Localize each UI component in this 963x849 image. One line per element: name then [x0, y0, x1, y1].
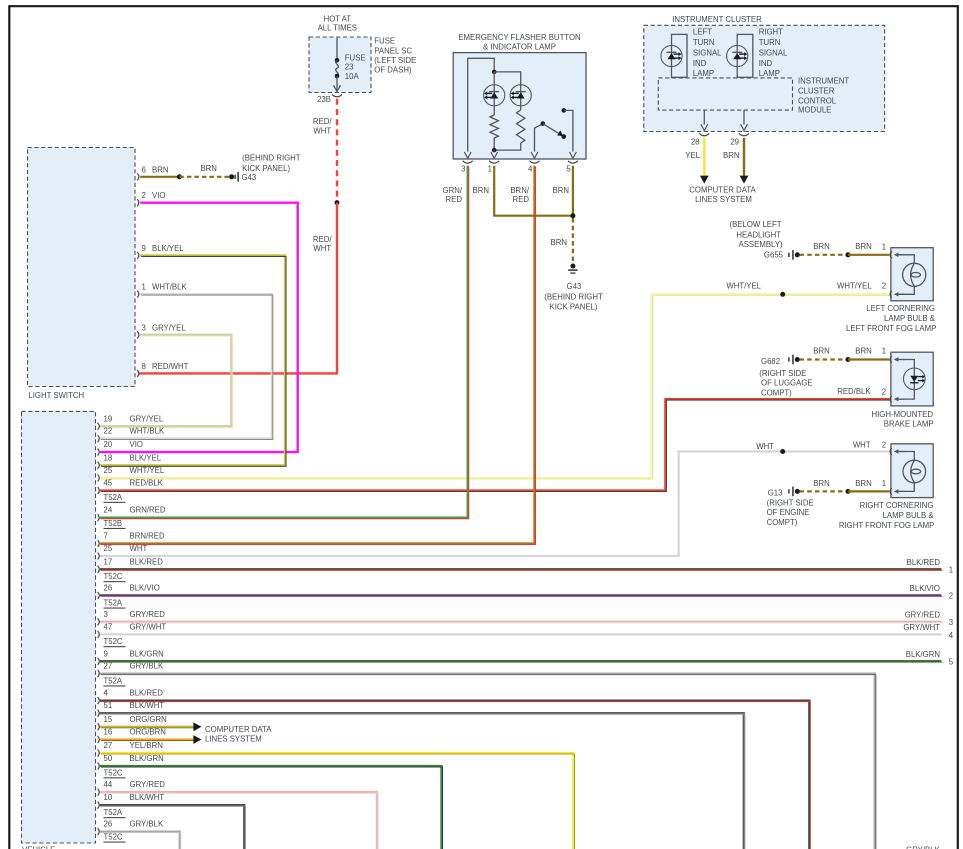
svg-text:LEFT CORNERING: LEFT CORNERING — [866, 304, 935, 313]
svg-text:3: 3 — [142, 323, 146, 332]
T52 pin 17 BLK/RED terminal — [98, 557, 164, 573]
svg-text:G43: G43 — [567, 282, 582, 291]
svg-text:BLK/RED: BLK/RED — [130, 689, 164, 698]
svg-text:23B: 23B — [317, 95, 331, 104]
node T52C — [104, 768, 126, 778]
splice on BRN — [177, 174, 182, 179]
svg-text:7: 7 — [104, 532, 108, 541]
svg-text:BRN: BRN — [813, 347, 829, 356]
light switch pin 2 VIO terminal — [137, 191, 165, 206]
T52 pin 24 GRN/RED terminal — [98, 506, 166, 522]
svg-text:RIGHT FRONT FOG LAMP: RIGHT FRONT FOG LAMP — [839, 521, 934, 530]
svg-text:TURN: TURN — [693, 38, 715, 47]
cluster pin 28 — [691, 110, 709, 146]
wire BRN pin 6 — [140, 176, 179, 178]
svg-text:BRAKE LAMP: BRAKE LAMP — [884, 420, 934, 429]
svg-text:OF DASH): OF DASH) — [374, 66, 412, 75]
svg-text:26: 26 — [104, 583, 113, 592]
svg-text:GRN/RED: GRN/RED — [130, 506, 166, 515]
svg-text:T52C: T52C — [104, 768, 123, 777]
svg-text:BLK/VIO: BLK/VIO — [130, 583, 160, 592]
flasher pin 5 — [566, 152, 578, 173]
svg-text:47: 47 — [104, 623, 113, 632]
indicator LED 1 — [484, 72, 505, 115]
wire BRN dashed from G655 — [800, 254, 849, 256]
label BRN/RED — [510, 186, 529, 204]
svg-text:RED/: RED/ — [313, 117, 332, 126]
svg-text:RED/BLK: RED/BLK — [837, 387, 871, 396]
svg-text:LAMP: LAMP — [693, 69, 714, 78]
T52 pin 18 BLK/YEL terminal — [98, 453, 162, 469]
svg-text:23: 23 — [345, 63, 354, 72]
wire RED/BLK pin45 to high-mounted brake lamp — [100, 387, 890, 491]
lamp internal wiring — [894, 449, 915, 493]
svg-text:CLUSTER: CLUSTER — [798, 87, 835, 96]
wire BLK/GRN to bottom edge — [100, 766, 443, 849]
flasher pin 3 — [461, 152, 473, 173]
T52 pin 15 ORG/GRN terminal — [98, 715, 167, 731]
lamp pin 1 terminal — [890, 488, 892, 495]
svg-text:GRY/YEL: GRY/YEL — [152, 323, 186, 332]
svg-text:FUSE: FUSE — [374, 37, 395, 46]
svg-text:GRY/WHT: GRY/WHT — [130, 623, 167, 632]
T52 pin 7 BRN/RED terminal — [98, 532, 165, 548]
svg-text:5: 5 — [949, 658, 954, 667]
lamp pin 2 terminal — [890, 291, 892, 298]
label LEFT TURN SIGNAL IND LAMP — [693, 27, 722, 78]
T52 pin 19 GRY/YEL terminal — [98, 414, 164, 430]
bulb right cornering — [903, 460, 926, 483]
splice on WHT/YEL — [780, 292, 785, 297]
lamp internal wiring — [894, 253, 915, 297]
splice BRN — [846, 357, 851, 362]
T52 pin 27 GRY/BLK terminal — [98, 662, 164, 678]
wire BRN dashed from G682 — [800, 358, 849, 360]
svg-text:BLK/WHT: BLK/WHT — [130, 701, 165, 710]
svg-text:HOT AT: HOT AT — [324, 14, 352, 23]
splice node on RED/WHT — [335, 200, 340, 205]
wire BLK/WHT to bottom edge — [100, 805, 245, 849]
svg-text:BRN: BRN — [723, 151, 739, 160]
label LIGHT SWITCH — [28, 391, 84, 400]
svg-text:1: 1 — [142, 283, 146, 292]
wire YEL/BRN to bottom edge — [100, 753, 575, 849]
T52 pin 20 VIO terminal — [98, 440, 143, 456]
label GRY/BLK (cut off, bottom right) — [906, 846, 940, 849]
label INSTRUMENT CLUSTER CONTROL MODULE — [798, 77, 849, 115]
splice on WHT — [780, 449, 785, 454]
ground G13 — [788, 487, 800, 497]
splice BRN — [846, 252, 851, 257]
instrument cluster control module box — [658, 78, 792, 110]
svg-text:ORG/BRN: ORG/BRN — [130, 728, 166, 737]
wire BRN flasher pin1 — [494, 166, 573, 216]
svg-text:(BELOW LEFT: (BELOW LEFT — [730, 220, 782, 229]
svg-text:G43: G43 — [242, 173, 257, 182]
svg-text:WHT: WHT — [313, 126, 331, 135]
svg-text:26: 26 — [104, 820, 113, 829]
svg-text:T52C: T52C — [104, 833, 123, 842]
wire GRY/WHT pin to right edge 4 — [100, 623, 954, 640]
svg-text:BLK/VIO: BLK/VIO — [910, 584, 940, 593]
T52 pin 51 BLK/WHT terminal — [98, 701, 165, 717]
T52 pin 16 ORG/BRN terminal — [98, 728, 166, 744]
svg-text:RED/WHT: RED/WHT — [152, 362, 189, 371]
svg-text:51: 51 — [104, 701, 113, 710]
wire GRY/RED to bottom edge — [100, 792, 378, 849]
right cornering lamp box — [891, 444, 933, 498]
svg-text:BLK/GRN: BLK/GRN — [130, 754, 164, 763]
label LEFT CORNERING LAMP BULB & LEFT FRONT FOG LAMP — [846, 304, 936, 333]
svg-text:BRN: BRN — [855, 347, 871, 356]
svg-text:WHT: WHT — [756, 442, 774, 451]
svg-text:27: 27 — [104, 741, 113, 750]
svg-text:PANEL SC: PANEL SC — [374, 47, 412, 56]
svg-text:SIGNAL: SIGNAL — [693, 49, 722, 58]
svg-text:INSTRUMENT: INSTRUMENT — [798, 77, 849, 86]
label FUSE PANEL SC (LEFT SIDE OF DASH) — [374, 37, 416, 75]
svg-text:3: 3 — [104, 610, 108, 619]
left turn signal ind lamp U-left — [661, 34, 687, 77]
label (BEHIND RIGHT KICK PANEL) — [242, 154, 301, 174]
light switch pin 6 BRN terminal — [137, 165, 168, 180]
label HIGH-MOUNTED BRAKE LAMP — [871, 410, 933, 429]
svg-text:IND: IND — [693, 59, 707, 68]
wire BRN to lamp pin 1 — [813, 242, 889, 255]
resistor R2 — [494, 110, 525, 150]
svg-text:GRY/BLK: GRY/BLK — [906, 846, 940, 849]
wire ORG/BRN pin16 to data line — [100, 735, 201, 744]
svg-text:WHT/BLK: WHT/BLK — [152, 283, 187, 292]
svg-text:WHT/BLK: WHT/BLK — [130, 427, 165, 436]
fuse panel SC box — [309, 37, 371, 93]
label (BELOW LEFT HEADLIGHT ASSEMBLY) G655 — [730, 220, 784, 259]
wire BLK/RED to bottom edge — [100, 701, 810, 849]
wire BRN to brake lamp pin 1 — [813, 347, 889, 360]
connector 23B — [317, 95, 342, 105]
label GRN/RED — [443, 186, 463, 204]
svg-text:2: 2 — [882, 282, 886, 291]
LED brake lamp — [904, 368, 926, 390]
high-mounted brake lamp box — [891, 352, 933, 406]
svg-text:VIO: VIO — [152, 191, 165, 200]
svg-text:9: 9 — [142, 244, 146, 253]
svg-text:BRN: BRN — [200, 164, 216, 173]
svg-text:YEL: YEL — [685, 151, 700, 160]
svg-text:BRN: BRN — [553, 186, 569, 195]
wire BRN dashed to G43 — [179, 164, 231, 177]
node T52B — [104, 519, 126, 529]
svg-text:KICK PANEL): KICK PANEL) — [550, 303, 598, 312]
svg-text:GRY/BLK: GRY/BLK — [130, 820, 164, 829]
svg-text:GRY/BLK: GRY/BLK — [130, 662, 164, 671]
label INSTRUMENT CLUSTER — [672, 15, 762, 24]
node T52A — [104, 676, 126, 686]
svg-text:BRN: BRN — [813, 242, 829, 251]
T52 pin 26 GRY/BLK terminal — [98, 820, 164, 836]
svg-text:GRN/: GRN/ — [443, 186, 463, 195]
svg-text:WHT: WHT — [313, 244, 331, 253]
bulb left cornering — [903, 263, 926, 286]
svg-text:BRN: BRN — [855, 242, 871, 251]
svg-text:5: 5 — [566, 164, 571, 173]
svg-text:2: 2 — [142, 191, 146, 200]
wire VIO pin2 to pin20 — [100, 203, 298, 452]
indicator LED 2 — [510, 85, 531, 111]
node T52A — [104, 599, 126, 609]
svg-text:(LEFT SIDE: (LEFT SIDE — [374, 56, 416, 65]
svg-text:EMERGENCY FLASHER BUTTON: EMERGENCY FLASHER BUTTON — [458, 33, 580, 42]
wire GRY/YEL pin3 to pin19 — [100, 335, 232, 428]
T52 pin 4 BLK/RED terminal — [98, 689, 164, 705]
wire WHT/YEL pin25 to left cornering lamp — [100, 281, 890, 479]
node T52A — [104, 808, 126, 818]
T52 pin 22 WHT/BLK terminal — [98, 427, 165, 443]
svg-text:25: 25 — [104, 466, 113, 475]
svg-text:T52A: T52A — [104, 808, 123, 817]
label COMPUTER DATA LINES SYSTEM (left) — [205, 725, 272, 743]
svg-text:22: 22 — [104, 427, 113, 436]
svg-text:BLK/RED: BLK/RED — [130, 557, 164, 566]
svg-text:G655: G655 — [764, 250, 784, 259]
T52 pin 10 BLK/WHT terminal — [98, 793, 165, 809]
svg-text:2: 2 — [882, 387, 886, 396]
svg-text:LAMP BULB &: LAMP BULB & — [884, 314, 936, 323]
svg-text:4: 4 — [528, 164, 533, 173]
wire BRN dashed to G43 — [551, 218, 573, 264]
svg-text:COMPUTER DATA: COMPUTER DATA — [689, 186, 756, 195]
svg-text:LINES SYSTEM: LINES SYSTEM — [205, 735, 262, 744]
svg-text:MODULE: MODULE — [798, 106, 831, 115]
fuse F23 10A — [334, 38, 366, 92]
light switch pin 9 BLK/YEL terminal — [137, 244, 184, 259]
ground G655 — [788, 250, 800, 260]
flasher pin 4 — [528, 152, 540, 173]
svg-text:GRY/RED: GRY/RED — [130, 780, 166, 789]
splice BRN junction — [570, 213, 575, 218]
node junction bottom — [492, 148, 497, 153]
svg-text:BRN: BRN — [813, 479, 829, 488]
svg-text:IND: IND — [759, 59, 773, 68]
svg-text:SIGNAL: SIGNAL — [759, 49, 788, 58]
svg-text:BRN/RED: BRN/RED — [130, 532, 165, 541]
svg-text:8: 8 — [142, 362, 146, 371]
svg-text:24: 24 — [104, 506, 113, 515]
svg-text:1: 1 — [882, 242, 886, 251]
T52 pin 27 YEL/BRN terminal — [98, 741, 163, 757]
svg-text:ALL TIMES: ALL TIMES — [318, 24, 357, 33]
T52 connector box — [22, 411, 96, 843]
svg-text:4: 4 — [949, 631, 954, 640]
svg-text:BRN: BRN — [551, 238, 567, 247]
label G43 (BEHIND RIGHT KICK PANEL) — [544, 282, 603, 312]
svg-text:G13: G13 — [768, 488, 783, 497]
light switch pin 8 RED/WHT terminal — [137, 362, 188, 377]
cluster pin 29 — [730, 110, 749, 146]
wire BRN dashed from G13 — [800, 490, 849, 492]
svg-text:LINES SYSTEM: LINES SYSTEM — [695, 195, 752, 204]
svg-text:1: 1 — [882, 347, 886, 356]
lamp pin 1 terminal — [890, 251, 892, 258]
svg-text:T52C: T52C — [104, 572, 123, 581]
svg-text:1: 1 — [488, 164, 492, 173]
svg-text:T52A: T52A — [104, 493, 123, 502]
svg-text:GRY/RED: GRY/RED — [130, 610, 166, 619]
svg-text:GRY/YEL: GRY/YEL — [130, 414, 164, 423]
svg-text:T52A: T52A — [104, 676, 123, 685]
svg-text:BLK/YEL: BLK/YEL — [130, 453, 162, 462]
wire GRY/RED pin to right edge 3 — [100, 610, 953, 627]
svg-text:RIGHT: RIGHT — [759, 27, 783, 36]
wire BRN/RED pin7 to flasher pin4 — [100, 166, 536, 545]
instrument cluster box — [644, 25, 885, 131]
svg-text:WHT: WHT — [853, 440, 871, 449]
label COMPUTER DATA LINES SYSTEM — [689, 186, 756, 204]
light switch pin 1 WHT/BLK terminal — [137, 283, 187, 298]
svg-text:4: 4 — [104, 689, 109, 698]
svg-text:OF ENGINE: OF ENGINE — [767, 508, 810, 517]
T52 pin 47 GRY/WHT terminal — [98, 623, 167, 639]
wire BLK/VIO pin to right edge 2 — [100, 584, 953, 601]
label BRN pin1 — [473, 186, 489, 195]
node T52C — [104, 572, 126, 582]
svg-text:HEADLIGHT: HEADLIGHT — [736, 230, 781, 239]
svg-text:RED: RED — [446, 195, 463, 204]
svg-text:17: 17 — [104, 557, 113, 566]
svg-text:10: 10 — [104, 793, 113, 802]
wire WHT/BLK pin1 to pin22 — [100, 294, 273, 439]
svg-text:CONTROL: CONTROL — [798, 96, 837, 105]
svg-text:3: 3 — [461, 164, 465, 173]
svg-text:BRN: BRN — [152, 165, 168, 174]
light switch connector box — [28, 148, 136, 387]
svg-text:1: 1 — [882, 479, 886, 488]
label G13 (RIGHT SIDE OF ENGINE COMPT) — [767, 488, 814, 527]
svg-text:RED/: RED/ — [313, 235, 332, 244]
svg-text:BRN: BRN — [473, 186, 489, 195]
svg-text:COMPT): COMPT) — [761, 388, 792, 397]
wire WHT pin25 to right cornering lamp — [100, 440, 889, 556]
svg-text:WHT/YEL: WHT/YEL — [837, 281, 872, 290]
svg-text:T52A: T52A — [104, 599, 123, 608]
node T52C — [104, 833, 126, 843]
lamp internal wiring — [894, 357, 915, 401]
wire BRN flasher pin5 — [572, 166, 574, 216]
light switch pin 3 GRY/YEL terminal — [137, 323, 186, 338]
svg-text:9: 9 — [104, 649, 108, 658]
svg-text:LAMP: LAMP — [759, 69, 780, 78]
splice BRN — [846, 489, 851, 494]
svg-text:TURN: TURN — [759, 38, 781, 47]
svg-text:18: 18 — [104, 453, 113, 462]
svg-text:GRY/RED: GRY/RED — [905, 610, 941, 619]
wire BRN pin29 to data lines — [723, 138, 748, 184]
svg-text:WHT/YEL: WHT/YEL — [726, 281, 761, 290]
flasher pin 1 — [488, 152, 500, 173]
svg-text:ORG/GRN: ORG/GRN — [130, 715, 167, 724]
switch SW (flasher button) — [535, 108, 573, 152]
svg-text:LEFT: LEFT — [693, 27, 712, 36]
svg-text:50: 50 — [104, 754, 113, 763]
wire RED/WHT dashed from fuse 23B — [313, 99, 337, 201]
node junction top — [492, 70, 497, 75]
label HOT AT ALL TIMES — [318, 14, 357, 32]
svg-text:16: 16 — [104, 728, 113, 737]
svg-text:RIGHT CORNERING: RIGHT CORNERING — [860, 501, 934, 510]
svg-text:15: 15 — [104, 715, 113, 724]
label G682 (RIGHT SIDE OF LUGGAGE COMPT) — [759, 357, 812, 398]
svg-text:10A: 10A — [345, 72, 360, 81]
T52 pin 26 BLK/VIO terminal — [98, 583, 160, 599]
svg-text:ASSEMBLY): ASSEMBLY) — [739, 240, 783, 249]
wire BRN to right cornering pin 1 — [813, 479, 889, 491]
svg-text:28: 28 — [691, 137, 700, 146]
svg-text:HIGH-MOUNTED: HIGH-MOUNTED — [871, 410, 933, 419]
svg-text:(BEHIND RIGHT: (BEHIND RIGHT — [242, 154, 301, 163]
wire to second lamp branch — [494, 72, 521, 85]
svg-text:44: 44 — [104, 780, 113, 789]
T52 pin 3 GRY/RED terminal — [98, 610, 166, 626]
svg-text:COMPUTER DATA: COMPUTER DATA — [205, 725, 272, 734]
T52 pin 9 BLK/GRN terminal — [98, 649, 164, 665]
svg-text:1: 1 — [949, 566, 953, 575]
node T52A — [104, 493, 126, 503]
ground G43 (below flasher) — [568, 264, 577, 274]
right turn signal ind lamp — [727, 34, 753, 77]
svg-text:KICK PANEL): KICK PANEL) — [242, 164, 290, 173]
svg-text:20: 20 — [104, 440, 113, 449]
emergency flasher button box — [453, 53, 586, 159]
svg-text:29: 29 — [730, 137, 739, 146]
ground G43 (light switch) — [229, 172, 256, 182]
svg-text:45: 45 — [104, 479, 113, 488]
T52 pin 25 WHT/YEL terminal — [98, 466, 165, 482]
svg-text:(BEHIND RIGHT: (BEHIND RIGHT — [544, 292, 603, 301]
label EMERGENCY FLASHER BUTTON & INDICATOR LAMP — [458, 33, 580, 52]
svg-text:RED: RED — [513, 195, 530, 204]
svg-text:BRN/: BRN/ — [510, 186, 529, 195]
svg-text:BRN: BRN — [855, 479, 871, 488]
svg-text:2: 2 — [949, 592, 953, 601]
svg-text:(RIGHT SIDE: (RIGHT SIDE — [759, 369, 806, 378]
svg-text:BLK/WHT: BLK/WHT — [130, 793, 165, 802]
label BRN pin5 — [553, 186, 569, 195]
svg-text:25: 25 — [104, 544, 113, 553]
left cornering lamp box — [891, 248, 933, 301]
wire BLK/WHT to bottom edge — [100, 713, 745, 849]
resistor R1 — [490, 115, 498, 150]
svg-text:BLK/RED: BLK/RED — [907, 558, 941, 567]
wire BLK/RED pin to right edge 1 — [100, 558, 953, 575]
svg-text:FUSE: FUSE — [345, 54, 366, 63]
svg-text:VIO: VIO — [130, 440, 143, 449]
ground G682 — [788, 355, 800, 365]
svg-text:T52C: T52C — [104, 637, 123, 646]
T52 pin 25 WHT terminal — [98, 544, 148, 560]
lamp pin 1 terminal — [890, 356, 892, 363]
svg-text:YEL/BRN: YEL/BRN — [130, 741, 163, 750]
wire ORG/GRN pin15 to data line — [100, 722, 201, 731]
wire GRY/BLK to bottom edge — [100, 674, 876, 849]
svg-text:27: 27 — [104, 662, 113, 671]
svg-text:LIGHT SWITCH: LIGHT SWITCH — [28, 391, 84, 400]
svg-text:OF LUGGAGE: OF LUGGAGE — [761, 378, 813, 387]
label RIGHT CORNERING LAMP BULB & RIGHT FRONT FOG LAMP — [839, 501, 935, 530]
svg-text:GRY/WHT: GRY/WHT — [903, 623, 940, 632]
wire GRN/RED pin24 to flasher pin3 — [100, 166, 469, 519]
svg-text:T52B: T52B — [104, 519, 123, 528]
node T52C — [104, 637, 126, 647]
